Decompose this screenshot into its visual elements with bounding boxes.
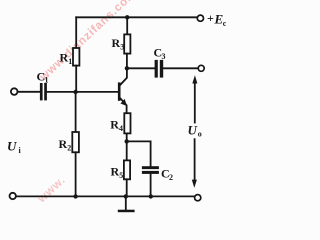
node top junction dot [125, 15, 129, 19]
svg-text:o: o [198, 130, 202, 139]
node C2 bottom dot [149, 194, 153, 198]
watermark fragment bottom-left [35, 174, 68, 206]
label R2 [59, 137, 72, 153]
wire collector to C3 [127, 67, 155, 69]
wire R5 top [126, 141, 128, 160]
label R5 [111, 165, 124, 181]
label C3 [154, 46, 166, 62]
svg-text:2: 2 [169, 173, 173, 182]
label Ui [7, 139, 22, 156]
svg-text:2: 2 [67, 144, 71, 153]
terminal input bottom [10, 193, 16, 199]
svg-text:U: U [188, 123, 198, 138]
svg-text:R: R [111, 165, 120, 179]
svg-text:c: c [223, 19, 227, 28]
wire R3 top [126, 17, 128, 34]
wire R5 bottom [126, 179, 128, 196]
svg-text:R: R [110, 118, 119, 132]
svg-text:R: R [112, 36, 121, 50]
wire to C2 branch [127, 141, 151, 166]
input terminal [11, 88, 18, 95]
wire R3 bottom to collector node [126, 54, 128, 69]
watermark text diagonal [37, 0, 139, 84]
label R3 [112, 36, 125, 52]
svg-text:1: 1 [45, 76, 49, 85]
terminal output top [198, 65, 204, 71]
ground [118, 196, 135, 212]
top supply rail wire [76, 16, 197, 18]
wire R2 bottom [75, 152, 77, 196]
wire base [47, 91, 118, 93]
node R2 bottom dot [73, 194, 77, 198]
resistor R1 [73, 48, 79, 66]
node base junction dot [73, 90, 77, 94]
wire C2 bottom [150, 174, 152, 197]
label Uo [188, 123, 202, 139]
resistor R3 [124, 34, 130, 53]
wire R2 top [75, 92, 77, 132]
svg-text:R: R [59, 137, 68, 151]
wire R4 bottom [126, 133, 128, 141]
svg-text:+: + [207, 11, 214, 25]
svg-text:5: 5 [119, 171, 123, 180]
label R4 [110, 118, 123, 134]
svg-text:3: 3 [162, 52, 166, 61]
resistor R5 [124, 160, 130, 179]
node emitter divider dot [125, 139, 129, 143]
svg-text:R: R [60, 51, 69, 65]
voltage arrow Uo [192, 75, 198, 188]
label C1 [37, 70, 49, 85]
wire R1 bottom [75, 66, 77, 92]
svg-text:U: U [7, 139, 17, 154]
bottom rail wire [16, 195, 195, 197]
svg-text:3: 3 [120, 43, 124, 52]
node ground dot [124, 194, 128, 198]
terminal +Ec [197, 15, 203, 21]
node collector junction dot [125, 66, 129, 70]
resistor R2 [72, 132, 79, 152]
svg-text:1: 1 [68, 57, 72, 66]
wire C3 to output [163, 67, 198, 69]
terminal output bottom [195, 195, 201, 201]
wire input to C1 [18, 91, 40, 93]
label + Ec [207, 11, 227, 28]
label C2 [161, 167, 173, 183]
resistor R4 [124, 113, 130, 133]
label R1 [60, 51, 73, 67]
transistor Q1 [118, 68, 127, 113]
svg-text:4: 4 [119, 124, 123, 133]
capacitor C3 [155, 60, 164, 78]
capacitor C2 [142, 166, 159, 174]
capacitor C1 [40, 83, 47, 100]
wire R1 top [75, 17, 77, 48]
